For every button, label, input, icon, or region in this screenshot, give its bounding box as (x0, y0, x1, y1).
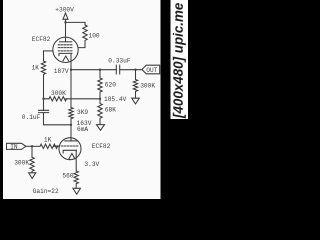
wire B+ to screen resistor (66, 21, 86, 23)
node bias (42, 98, 44, 100)
tube U2 envelope (59, 138, 81, 160)
U1 g1 lead to left (44, 50, 54, 52)
main output line (71, 69, 142, 71)
node cathode out (70, 69, 72, 71)
node divider mid (99, 98, 101, 100)
svg-text:187V: 187V (54, 68, 69, 75)
wire 1K to grid (54, 145, 59, 147)
wire lower plate lead (70, 125, 72, 141)
resistor 300K input (30, 157, 34, 173)
grid stopper wire down (43, 51, 45, 61)
wire node bias to cap (43, 99, 45, 111)
node input (31, 145, 33, 147)
SRPP column wire (70, 70, 72, 108)
node B+ (64, 21, 66, 23)
watermark strip (171, 0, 189, 119)
IN flag (7, 143, 26, 149)
U1 cathode lead down (70, 53, 72, 69)
svg-text:3.3V: 3.3V (84, 161, 99, 168)
tube U1 envelope (53, 37, 78, 62)
U2 heater (69, 153, 75, 158)
U1 heater (63, 56, 69, 61)
svg-text:0.1uF: 0.1uF (22, 114, 41, 121)
svg-text:620: 620 (105, 82, 116, 89)
svg-text:1K: 1K (32, 65, 40, 72)
svg-text:0.33uF: 0.33uF (108, 57, 131, 64)
schematic white paper (3, 0, 161, 199)
svg-text:IN: IN (10, 144, 18, 151)
resistor 620 (98, 70, 102, 99)
resistor 100 (screen dropper) (78, 22, 87, 47)
resistor 68K (98, 99, 102, 125)
wire input node down (31, 146, 33, 157)
ground 560 (73, 188, 81, 194)
svg-text:ECF82: ECF82 (32, 36, 51, 43)
node lower plate (70, 124, 72, 126)
node cap out (134, 69, 136, 71)
wire B+ down to plate (65, 22, 67, 37)
node divider top (99, 69, 101, 71)
resistor 1K input (40, 144, 58, 148)
svg-text:560: 560 (62, 173, 73, 180)
U2 grid lead (54, 145, 59, 147)
U2 grid dashed (61, 145, 79, 147)
resistor 3K9 (69, 108, 73, 126)
svg-text:+300V: +300V (55, 7, 74, 14)
power arrow up (63, 13, 68, 19)
svg-text:300K: 300K (14, 159, 29, 166)
wire IN to node (26, 145, 40, 147)
svg-text:ECF82: ECF82 (92, 143, 111, 150)
svg-text:[400x480] upic.me: [400x480] upic.me (171, 2, 186, 119)
ground input (29, 173, 36, 179)
U1 grid g3 dashed (58, 44, 73, 46)
ground 300K out (132, 98, 140, 104)
resistor 560 (74, 171, 78, 188)
U1 grid g2 dashed (58, 47, 73, 49)
svg-text:300K: 300K (51, 90, 66, 97)
OUT flag (142, 65, 160, 74)
resistor 1K (grid) (41, 61, 45, 99)
svg-text:Gain=22: Gain=22 (33, 188, 59, 195)
svg-text:300K: 300K (140, 82, 155, 89)
svg-text:1K: 1K (44, 137, 52, 144)
U1 cathode (59, 53, 72, 55)
svg-text:68K: 68K (105, 107, 116, 114)
svg-text:185.4V: 185.4V (104, 96, 127, 103)
ground 68K (97, 125, 105, 131)
resistor 300K out (133, 70, 137, 99)
svg-text:6mA: 6mA (77, 126, 88, 133)
U1 plate lead (65, 37, 67, 42)
U2 cathode lead down (75, 150, 77, 171)
capacitor 0.33uF plates (116, 65, 119, 74)
wire arrow to node (65, 19, 67, 22)
black backdrop (0, 0, 188, 204)
U2 plate bar (65, 140, 77, 142)
resistor 300K mid (49, 97, 67, 101)
svg-text:100: 100 (89, 33, 100, 40)
wire cap to lower plate (44, 113, 72, 125)
capacitor 0.1uF plates (39, 110, 49, 112)
U1 plate bar (60, 41, 72, 43)
U2 cathode (63, 150, 76, 153)
U1 grid g1 dashed (58, 50, 73, 52)
grid bias line (44, 98, 101, 100)
svg-text:3K9: 3K9 (77, 109, 88, 116)
svg-text:OUT: OUT (146, 67, 157, 74)
